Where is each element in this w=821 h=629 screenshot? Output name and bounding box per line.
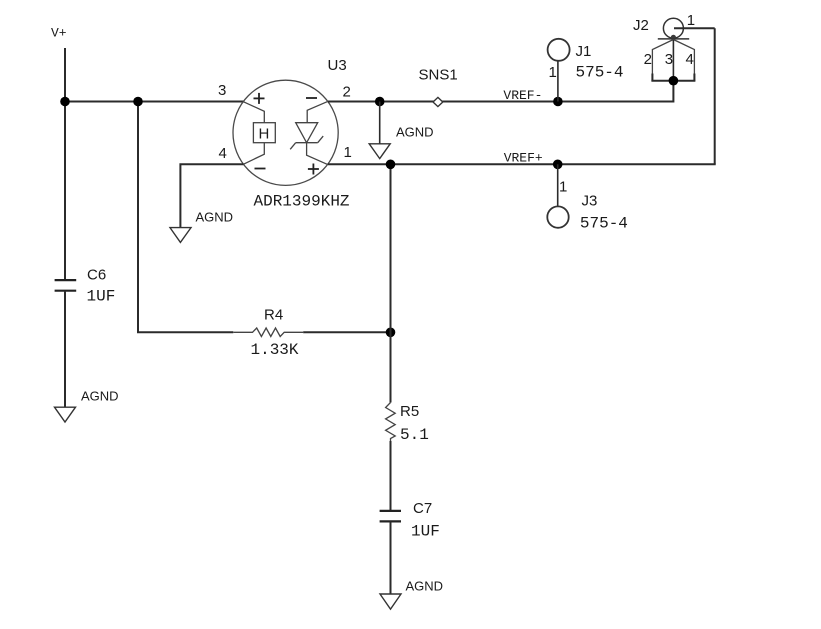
- svg-text:575-4: 575-4: [580, 215, 628, 233]
- pin 2 number (U3): [343, 84, 351, 101]
- wire C6 to ground: [64, 291, 66, 408]
- wire U3 pin 4 to left and down: [180, 164, 243, 227]
- pin 3 number (J2): [665, 51, 673, 68]
- wire down to AGND (pin 2): [379, 102, 381, 144]
- junction AGND drop on VREF- rail: [375, 97, 385, 107]
- svg-text:V+: V+: [51, 26, 67, 41]
- svg-text:U3: U3: [328, 57, 347, 74]
- node V+ label: [51, 26, 67, 41]
- svg-text:R4: R4: [264, 307, 283, 324]
- connector J2: [651, 18, 695, 80]
- wire J2 pin 1 to right vertical: [674, 27, 715, 29]
- resistor R4: [233, 328, 303, 337]
- label J3: [582, 192, 598, 209]
- pin 1 number (U3): [344, 144, 352, 161]
- ground AGND (U3 pin 2): [369, 125, 433, 159]
- wire J3 pin to rail: [557, 164, 559, 206]
- label R4: [264, 307, 283, 324]
- svg-text:575-4: 575-4: [576, 64, 624, 82]
- test point SNS1 diamond: [433, 97, 443, 106]
- pin 4 number (J2): [686, 51, 694, 68]
- value 1UF (C6): [87, 288, 116, 306]
- svg-text:AGND: AGND: [196, 210, 234, 225]
- ground AGND (bottom, below C7): [380, 579, 443, 610]
- pin 3 number (U3): [218, 82, 226, 99]
- svg-text:C6: C6: [87, 267, 106, 284]
- pin 2 number (J2): [644, 51, 652, 68]
- ground AGND (below C6): [55, 389, 119, 423]
- wire C7 to ground: [390, 521, 392, 594]
- label C6: [87, 267, 106, 284]
- wire vertical from VREF+ rail down through R4 junction to R5: [390, 164, 392, 402]
- junction at x=138 top rail: [133, 97, 143, 107]
- svg-text:J3: J3: [582, 192, 598, 209]
- op-amp U3 (ADR1399 reference, circle body): [233, 80, 338, 185]
- junction R4 / R5 node: [386, 328, 396, 338]
- connector J1: [548, 39, 570, 61]
- connector J3: [547, 206, 568, 227]
- value 1UF (C7): [411, 523, 440, 541]
- wire R4 right to junction: [303, 331, 390, 333]
- svg-text:4: 4: [686, 51, 694, 68]
- junction at V+ and top rail: [60, 97, 70, 107]
- wire VREF- rail up to J2: [672, 81, 674, 103]
- label C7: [413, 500, 432, 517]
- junction J3 drop on VREF+ rail: [553, 160, 563, 170]
- svg-text:AGND: AGND: [81, 389, 119, 404]
- wire V+ vertical down to C6: [64, 48, 66, 280]
- label R5: [400, 403, 419, 420]
- svg-text:5.1: 5.1: [400, 426, 429, 444]
- wire vertical x=138 down to R4 row: [137, 102, 139, 333]
- svg-text:R5: R5: [400, 403, 419, 420]
- U3 polarity marks: [254, 93, 319, 175]
- net label VREF+: [504, 151, 543, 166]
- svg-text:AGND: AGND: [406, 579, 444, 594]
- svg-text:1: 1: [687, 12, 695, 29]
- net label VREF-: [503, 88, 542, 103]
- resistor R5: [386, 403, 396, 442]
- svg-text:J1: J1: [576, 43, 592, 60]
- pin 1 number (J3): [559, 179, 567, 196]
- svg-text:ADR1399KHZ: ADR1399KHZ: [254, 193, 350, 211]
- svg-text:1: 1: [344, 144, 352, 161]
- label SNS1: [419, 67, 458, 84]
- svg-text:3: 3: [665, 51, 673, 68]
- value 575-4 (J1): [576, 64, 624, 82]
- svg-text:1: 1: [549, 64, 557, 81]
- svg-text:J2: J2: [633, 17, 649, 34]
- svg-text:1.33K: 1.33K: [251, 341, 299, 359]
- label J1: [576, 43, 592, 60]
- junction R-divider drop on VREF+ rail: [386, 160, 396, 170]
- junction J1 drop on VREF- rail: [553, 97, 563, 107]
- wire R5 to C7: [390, 441, 392, 511]
- svg-text:3: 3: [218, 82, 226, 99]
- junction J2 pins 2-3-4: [669, 76, 679, 86]
- svg-text:SNS1: SNS1: [419, 67, 458, 84]
- U3 internal heater branch with H box: [243, 102, 275, 165]
- svg-text:VREF-: VREF-: [503, 88, 542, 103]
- ground AGND (U3 pin 4): [170, 210, 233, 243]
- U3 internal zener diode: [290, 102, 327, 165]
- capacitor C7: [380, 511, 401, 522]
- wire right vertical down to VREF+ rail: [714, 28, 716, 164]
- capacitor C6: [55, 280, 77, 291]
- label U3: [328, 57, 347, 74]
- value 1.33K: [251, 341, 299, 359]
- svg-text:VREF+: VREF+: [504, 151, 543, 166]
- pin 1 number (J2): [687, 12, 695, 29]
- svg-text:1UF: 1UF: [87, 288, 116, 306]
- svg-text:1UF: 1UF: [411, 523, 440, 541]
- wire R4 row left: [137, 331, 233, 333]
- svg-text:4: 4: [219, 145, 227, 162]
- value ADR1399KHZ: [254, 193, 350, 211]
- svg-text:2: 2: [644, 51, 652, 68]
- svg-text:AGND: AGND: [396, 125, 434, 140]
- svg-text:2: 2: [343, 84, 351, 101]
- value 575-4 (J3): [580, 215, 628, 233]
- svg-text:H: H: [259, 125, 270, 142]
- pin 4 number (U3): [219, 145, 227, 162]
- wire VREF+ rail: [328, 163, 716, 165]
- svg-text:C7: C7: [413, 500, 432, 517]
- wire J1 pin to rail: [557, 61, 559, 102]
- wire VREF- rail (U3 pin 2 to J2 drop): [328, 101, 674, 103]
- label J2: [633, 17, 649, 34]
- pin 1 number (J1): [549, 64, 557, 81]
- value 5.1: [400, 426, 429, 444]
- svg-text:1: 1: [559, 179, 567, 196]
- wire top rail to U3 pin 3: [64, 101, 244, 103]
